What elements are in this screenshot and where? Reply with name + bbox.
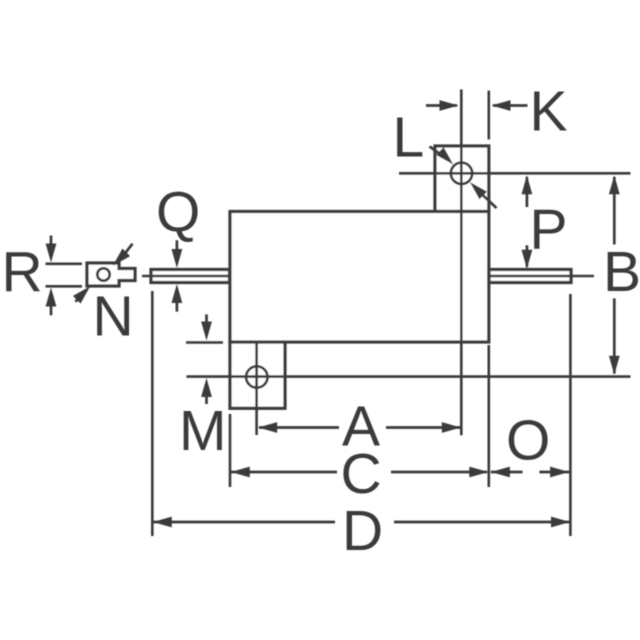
dimension R arrow up: [46, 288, 57, 307]
dimension C line left: [231, 471, 337, 474]
L arrow lower: [466, 178, 487, 199]
L leader tail lower: [481, 194, 497, 209]
dimension C line right: [391, 471, 487, 474]
dimension C extension right: [487, 345, 490, 487]
dimension K line right: [493, 104, 528, 107]
svg-text:R: R: [2, 240, 43, 304]
dimension R tick top: [46, 262, 83, 265]
N leader tail upper: [124, 244, 132, 255]
svg-text:O: O: [506, 409, 550, 473]
dimension D extension left: [151, 291, 154, 536]
dimension P line upper: [526, 177, 529, 207]
right lead: [489, 270, 571, 283]
bottom hole: [246, 366, 267, 387]
svg-text:Q: Q: [156, 181, 200, 245]
dimension B line upper: [613, 177, 616, 245]
dimension D arrow right: [551, 517, 570, 528]
top hole: [451, 163, 472, 184]
svg-text:L: L: [393, 106, 425, 170]
dimension A arrow right: [442, 422, 461, 433]
svg-text:B: B: [603, 240, 640, 304]
svg-text:C: C: [341, 442, 382, 506]
dimension P arrow down: [522, 250, 533, 269]
bottom mounting tab: [230, 342, 285, 408]
dimension P arrow up: [522, 175, 533, 194]
N arrow lower: [73, 282, 94, 303]
svg-text:N: N: [93, 285, 134, 349]
dimension C extension left: [229, 414, 232, 487]
dimension M arrow up line: [205, 386, 208, 404]
left lead: [151, 270, 230, 283]
svg-text:K: K: [530, 80, 568, 144]
dimension D extension right: [569, 294, 572, 536]
dimension M arrow up: [201, 378, 212, 397]
L arrow upper: [436, 147, 457, 168]
dimension O arrow left: [491, 467, 510, 478]
svg-text:P: P: [530, 198, 568, 262]
right lead axis line: [489, 275, 594, 278]
dimension Q arrow up: [172, 284, 183, 303]
dimension D arrow left: [153, 517, 172, 528]
N leader tail lower: [76, 298, 79, 302]
dimension D line left: [153, 521, 335, 524]
dimension R arrow up line: [50, 295, 53, 315]
top hole centerline horizontal: [399, 172, 631, 175]
dimension C arrow right: [469, 467, 488, 478]
dimension A arrow left: [258, 422, 277, 433]
bottom hole centerline vertical: [255, 342, 258, 435]
svg-text:D: D: [342, 499, 383, 563]
dimension M arrow down line: [205, 314, 208, 333]
lug hole: [97, 268, 109, 280]
top hole centerline vertical: [460, 89, 463, 435]
dimension M arrow down: [201, 322, 212, 341]
dimension R tick bottom: [46, 285, 83, 288]
dimension C arrow left: [231, 467, 250, 478]
dimension D line right: [394, 521, 570, 524]
top mounting tab: [435, 146, 489, 212]
dimension Q arrow up line: [176, 292, 179, 312]
dimension A line right: [386, 426, 460, 429]
dimension M tick: [186, 341, 223, 344]
dimension K arrow right: [492, 100, 511, 111]
dimension Q arrow down line: [176, 240, 179, 260]
dimension K arrow left: [440, 100, 459, 111]
dimension Q arrow down: [172, 249, 183, 268]
bottom hole centerline horizontal: [187, 375, 631, 378]
N arrow upper: [109, 249, 130, 270]
dimension B arrow down: [609, 356, 620, 375]
dimension B arrow up: [609, 175, 620, 194]
dimension K line left: [426, 104, 457, 107]
dimension A line left: [259, 426, 339, 429]
L leader tail upper: [430, 147, 443, 156]
svg-text:M: M: [179, 399, 226, 463]
dimension B line lower: [613, 298, 616, 373]
dimension P line lower: [526, 245, 529, 267]
solder lug terminal: [87, 263, 135, 286]
dimension K extension line: [487, 91, 490, 140]
dimension R arrow down: [46, 244, 57, 263]
dimension O line right: [539, 471, 569, 474]
dimension R arrow down line: [50, 236, 53, 256]
dimension O arrow right: [550, 467, 569, 478]
dimension O line left: [491, 471, 523, 474]
left lead axis line: [142, 275, 230, 278]
resistor body: [230, 212, 489, 343]
